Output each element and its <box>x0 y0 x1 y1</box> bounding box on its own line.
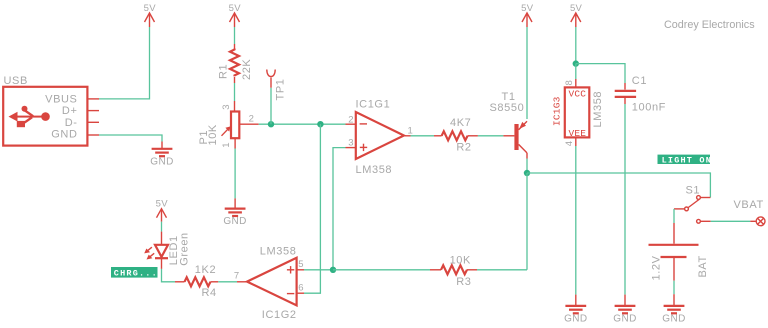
svg-text:GND: GND <box>564 313 587 324</box>
svg-text:R3: R3 <box>456 276 471 288</box>
wire collector to node <box>526 159 528 174</box>
IC1G2 pin6 stub <box>297 292 304 294</box>
svg-text:10K: 10K <box>450 255 471 267</box>
svg-text:VCC: VCC <box>568 89 586 100</box>
svg-text:VEE: VEE <box>568 128 586 139</box>
USB pin D+ <box>87 110 99 112</box>
svg-text:6: 6 <box>298 283 304 294</box>
IC1G1 pin3 stub <box>346 147 356 149</box>
resistor R1 22K <box>218 49 253 81</box>
P1 wiper pin 2 stub <box>239 123 258 125</box>
svg-text:100nF: 100nF <box>632 101 666 113</box>
resistor R2 4K7 <box>434 117 478 153</box>
5V supply symbol (T1 emitter) <box>521 3 534 27</box>
svg-text:D-: D- <box>65 117 78 129</box>
svg-text:GND: GND <box>613 313 636 324</box>
wire switch pole to battery <box>673 209 675 223</box>
svg-text:8: 8 <box>564 80 575 86</box>
LED LED1 Green <box>144 232 190 266</box>
wire collector node down to R3 row <box>526 173 528 270</box>
ground GND (C1) <box>613 306 636 325</box>
transistor T1 S8550 <box>490 91 528 159</box>
wire P1 pin1 to ground <box>234 138 236 148</box>
svg-text:IC1G1: IC1G1 <box>356 98 391 110</box>
wire R1 to P1 pin3 <box>234 77 236 83</box>
svg-text:4: 4 <box>564 141 575 147</box>
wire junction to IC1G3 pin8 <box>575 64 577 79</box>
wire R3 row <box>333 269 430 271</box>
switch S1 <box>674 185 711 224</box>
IC1G1 pin2 stub <box>346 123 356 125</box>
ground GND (IC1G3) <box>564 306 587 325</box>
svg-text:S1: S1 <box>686 185 701 197</box>
svg-text:CHRG...: CHRG... <box>114 269 158 279</box>
ground GND (P1) <box>223 209 246 228</box>
ground GND (USB) <box>150 149 173 168</box>
svg-text:10K: 10K <box>207 124 219 145</box>
wire IC1G3 pin4 to ground <box>575 137 577 146</box>
svg-text:Green: Green <box>178 232 190 266</box>
wire junction to C1 <box>576 64 625 83</box>
svg-text:5V: 5V <box>156 199 169 210</box>
5V supply symbol (R1) <box>229 3 242 27</box>
node junction R3 <box>330 267 336 273</box>
node junction at TP1 <box>268 121 274 127</box>
svg-text:LM358: LM358 <box>356 164 393 176</box>
wire VBUS to 5V <box>99 27 150 99</box>
USB connector X1 <box>3 75 87 146</box>
svg-text:BAT: BAT <box>697 255 709 277</box>
wire 5V to LED1 <box>161 222 163 232</box>
battery BAT 1.2V <box>649 245 709 281</box>
svg-text:LIGHT ON: LIGHT ON <box>662 155 712 165</box>
USB pin VBUS <box>87 98 99 100</box>
wire R4 to IC1G2 pin7 <box>218 281 237 283</box>
wire 5V to R1 <box>234 27 236 44</box>
svg-text:4K7: 4K7 <box>450 117 471 129</box>
test point TP1 <box>267 70 287 101</box>
svg-text:USB: USB <box>4 75 28 87</box>
ground GND (BAT) <box>662 306 685 325</box>
svg-text:1K2: 1K2 <box>195 264 216 276</box>
wire battery to ground <box>673 257 675 281</box>
IC1G2 pin5 stub <box>297 269 304 271</box>
USB pin D- <box>87 121 99 123</box>
svg-text:R4: R4 <box>202 287 217 299</box>
wire 5V down to IC1G3 <box>575 27 577 64</box>
wire wiper row to op-amp pin2 <box>259 123 346 125</box>
svg-text:1: 1 <box>221 142 232 148</box>
wire R2 to T1 base <box>478 135 504 137</box>
node collector junction <box>524 170 530 176</box>
wire pin5 to R3 node <box>304 269 333 271</box>
svg-text:VBAT: VBAT <box>734 199 764 211</box>
wire collector node to switch <box>527 173 710 198</box>
label CHRG... <box>111 267 158 279</box>
svg-text:C1: C1 <box>632 75 647 87</box>
5V supply symbol (LED1) <box>156 199 169 222</box>
wire 5V to emitter <box>526 27 528 119</box>
op-amp IC1G1 <box>348 98 413 176</box>
svg-text:S8550: S8550 <box>490 102 525 114</box>
USB pin GND <box>87 134 99 136</box>
wire USB GND to ground <box>99 135 162 142</box>
wire switch to VBAT terminal <box>711 220 751 222</box>
svg-text:LM358: LM358 <box>592 91 604 128</box>
power block IC1G3 LM358 <box>551 80 604 146</box>
svg-text:T1: T1 <box>502 91 516 103</box>
svg-text:7: 7 <box>234 271 240 282</box>
wire C1 to ground <box>624 97 626 104</box>
svg-text:Codrey Electronics: Codrey Electronics <box>664 19 755 31</box>
svg-text:GND: GND <box>662 313 685 324</box>
svg-text:5: 5 <box>298 259 304 270</box>
svg-text:LM358: LM358 <box>260 246 297 258</box>
svg-text:1: 1 <box>408 126 414 137</box>
svg-text:IC1G3: IC1G3 <box>551 96 562 126</box>
5V supply symbol (IC1G3) <box>570 3 583 27</box>
wire feedback vertical to IC1G2 pin6 <box>304 124 320 293</box>
svg-text:R2: R2 <box>456 141 471 153</box>
wire LED1 to R4 <box>161 258 163 269</box>
svg-text:3: 3 <box>221 104 232 110</box>
svg-text:GND: GND <box>223 216 246 227</box>
resistor R3 10K <box>430 255 477 288</box>
node junction 5V/C1 <box>573 60 579 66</box>
wire pin3 down to R3 node <box>333 148 346 270</box>
svg-text:GND: GND <box>150 156 173 167</box>
svg-text:22K: 22K <box>241 59 253 80</box>
capacitor C1 100nF <box>615 75 666 113</box>
label LIGHT ON <box>658 155 713 166</box>
svg-text:IC1G2: IC1G2 <box>262 309 297 321</box>
svg-text:TP1: TP1 <box>274 79 286 101</box>
resistor R4 1K2 <box>175 264 218 299</box>
potentiometer P1 10K <box>198 104 254 148</box>
svg-text:2: 2 <box>249 113 255 124</box>
wire output to R2 <box>411 135 435 137</box>
svg-text:R1: R1 <box>218 64 230 79</box>
IC1G1 output pin1 stub <box>404 135 411 137</box>
node junction feedback <box>317 121 323 127</box>
svg-text:VBUS: VBUS <box>45 93 77 105</box>
svg-text:GND: GND <box>51 129 77 141</box>
wire junction to TP1 <box>270 88 272 125</box>
svg-text:D+: D+ <box>62 105 78 117</box>
wire R3 to collector node <box>477 269 527 271</box>
5V supply symbol (USB) <box>144 3 157 27</box>
svg-text:1.2V: 1.2V <box>651 255 663 280</box>
op-amp IC1G2 <box>234 246 304 321</box>
terminal VBAT <box>734 199 765 226</box>
